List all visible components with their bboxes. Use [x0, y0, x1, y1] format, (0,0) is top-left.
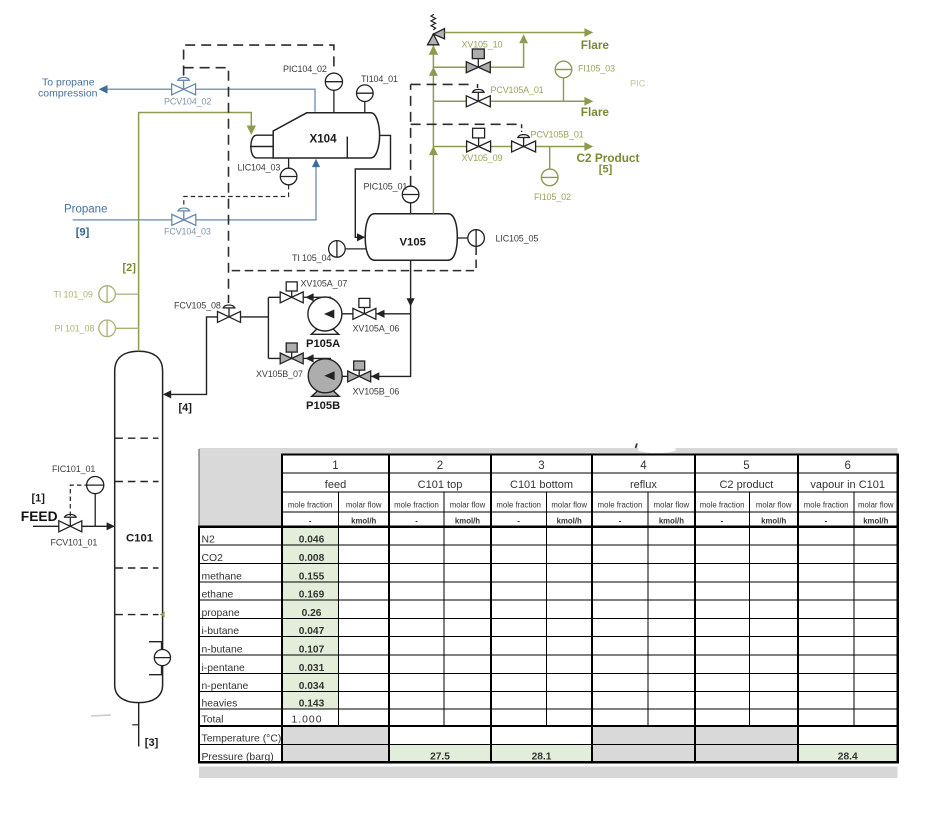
svg-text:XV105A_07: XV105A_07 [301, 279, 348, 289]
svg-text:-: - [619, 517, 622, 526]
arrow propane into X104 [312, 159, 320, 167]
C101 tray 2 [115, 481, 158, 483]
C101 bottom outlet line [3] [138, 703, 140, 747]
svg-text:TI104_01: TI104_01 [361, 74, 398, 84]
reboiler stub lower [149, 666, 162, 675]
svg-text:4: 4 [640, 460, 647, 472]
arrow into V105 [357, 233, 365, 241]
valve XV105B_07 [280, 343, 303, 364]
svg-text:-: - [825, 517, 828, 526]
pressure row cells [282, 745, 389, 763]
arrow on P105A discharge [305, 293, 313, 301]
svg-text:1: 1 [332, 460, 338, 472]
svg-text:molar flow: molar flow [858, 501, 894, 510]
svg-text:FI105_02: FI105_02 [534, 192, 571, 202]
svg-text:methane: methane [202, 572, 243, 583]
svg-text:mole fraction: mole fraction [394, 501, 439, 510]
wire XV105_10 branch [433, 44, 523, 68]
temperature row gray cells [282, 726, 389, 745]
arrow riser at XV105_10 branch [429, 67, 438, 76]
instrument FI105_03 [563, 78, 565, 102]
instrument TI 105_04 [345, 248, 366, 250]
units row [309, 517, 889, 526]
instrument LIC105_05 [457, 237, 468, 239]
svg-text:mole fraction: mole fraction [288, 501, 333, 510]
svg-text:n-pentane: n-pentane [202, 681, 249, 692]
svg-text:molar flow: molar flow [756, 501, 792, 510]
feed arrow into C101 [107, 522, 115, 530]
exchanger X104 body [273, 113, 379, 158]
svg-text:-: - [415, 517, 418, 526]
svg-text:[2]: [2] [123, 262, 137, 274]
arrow flare 2 [584, 97, 593, 106]
svg-text:kmol/h: kmol/h [863, 517, 888, 526]
svg-text:TI 105_04: TI 105_04 [292, 253, 331, 263]
svg-text:molar flow: molar flow [654, 501, 690, 510]
svg-text:V105: V105 [400, 236, 426, 248]
valve XV105_10 (gray) [466, 49, 490, 73]
arrow overhead into X104 [247, 126, 256, 135]
svg-text:-: - [721, 517, 724, 526]
X104 weir [346, 137, 348, 159]
column C101 [115, 351, 163, 702]
gray band above table [199, 448, 898, 454]
arrow riser at XV105_09 branch [429, 146, 438, 155]
svg-text:0.26: 0.26 [302, 608, 322, 619]
svg-text:PCV105B_01: PCV105B_01 [531, 130, 584, 140]
signal LIC105_05 to FCV105_08 [229, 247, 477, 271]
valve XV105_09 [467, 128, 491, 152]
signal wire FIC101_01 to FCV101_01 [70, 485, 86, 516]
svg-text:C101 top: C101 top [418, 479, 463, 491]
wire reflux to column [170, 317, 218, 395]
arrow to propane compression [99, 85, 108, 94]
valve FCV105_08 [218, 305, 241, 322]
svg-text:0.169: 0.169 [299, 590, 325, 601]
signal PIC104_02 to PCV104_02 [184, 45, 334, 75]
X104 channel partition [250, 146, 273, 148]
valve PCV105A_01 [466, 89, 490, 106]
wire blue propane vapour line [101, 89, 315, 111]
wire P105B discharge [268, 357, 331, 359]
svg-text:-: - [517, 517, 520, 526]
svg-text:mole fraction: mole fraction [804, 501, 849, 510]
svg-text:C101: C101 [126, 532, 153, 544]
svg-text:LIC104_03: LIC104_03 [238, 163, 281, 173]
svg-text:0.143: 0.143 [299, 698, 325, 709]
svg-text:-: - [309, 517, 312, 526]
svg-text:PCV104_02: PCV104_02 [164, 97, 211, 107]
instrument PIC105_01 [410, 203, 412, 214]
svg-text:0.046: 0.046 [299, 535, 325, 546]
svg-text:mole fraction: mole fraction [700, 501, 745, 510]
svg-text:molar flow: molar flow [551, 501, 587, 510]
pressure values [430, 751, 858, 762]
subheaders [288, 501, 894, 510]
thick horizontals [281, 454, 898, 456]
svg-text:XV105B_06: XV105B_06 [353, 387, 400, 397]
svg-text:FCV104_03: FCV104_03 [164, 227, 211, 237]
svg-text:Total: Total [202, 714, 224, 725]
svg-text:XV105_09: XV105_09 [462, 153, 503, 163]
arrow riser below PSV [429, 45, 438, 54]
svg-text:molar flow: molar flow [346, 501, 382, 510]
thin data rows [199, 544, 898, 546]
corner left thin border [198, 449, 200, 526]
wire feed line [33, 525, 111, 527]
thin subdividers [338, 492, 340, 726]
signal to PCV105A_01 [411, 83, 474, 85]
valve PCV104_02 (blue) [172, 77, 196, 94]
svg-text:kmol/h: kmol/h [351, 517, 376, 526]
svg-text:reflux: reflux [630, 479, 657, 491]
valve XV105B_06 [348, 361, 371, 382]
arrow down on V105 outlet [407, 298, 415, 306]
svg-text:XV105B_07: XV105B_07 [256, 369, 303, 379]
instrument TI104_01 [364, 102, 366, 113]
TABLE PART PLACEHOLDER [199, 444, 898, 779]
pump P105A [308, 297, 342, 334]
svg-text:[5]: [5] [599, 164, 613, 176]
svg-text:molar flow: molar flow [450, 501, 486, 510]
C101 tray 4 [115, 614, 158, 616]
gray corner block [199, 449, 282, 527]
svg-text:Pressure (barg): Pressure (barg) [202, 752, 274, 763]
svg-text:N2: N2 [202, 535, 216, 546]
olive vapour arrow at tray 4 [160, 611, 165, 617]
svg-text:Propane: Propane [64, 204, 107, 216]
svg-text:TI 101_09: TI 101_09 [54, 290, 93, 300]
row labels [202, 535, 282, 764]
svg-text:i-pentane: i-pentane [202, 663, 246, 674]
svg-text:kmol/h: kmol/h [659, 517, 684, 526]
C101 tray 1 [115, 437, 158, 439]
FIC101_01 tap line [94, 494, 96, 527]
svg-text:vapour in C101: vapour in C101 [810, 479, 885, 491]
wire C2 product line [433, 146, 589, 148]
faint artifact dash left of outlet [91, 715, 111, 716]
svg-text:PIC105_01: PIC105_01 [364, 182, 408, 192]
svg-text:feed: feed [325, 479, 346, 491]
wire olive flare riser [432, 45, 434, 214]
svg-text:XV105_10: XV105_10 [462, 40, 503, 50]
svg-text:kmol/h: kmol/h [557, 517, 582, 526]
valve FCV101_01 [59, 514, 82, 531]
instrument TI 101_09 [115, 293, 138, 295]
wire X104 outlet to V105 [355, 135, 390, 237]
svg-text:3: 3 [538, 460, 544, 472]
svg-text:0.031: 0.031 [299, 663, 325, 674]
wire P105A discharge [268, 296, 331, 298]
instrument FI105_02 [549, 147, 551, 170]
signal LIC104_03 to FCV104_03 [184, 185, 289, 208]
svg-text:XV105A_06: XV105A_06 [353, 324, 400, 334]
svg-text:PCV105A_01: PCV105A_01 [491, 85, 544, 95]
arrow into XV105A_06 [376, 310, 384, 318]
valve PCV105B_01 [512, 135, 536, 152]
X104 channel head [251, 135, 273, 158]
svg-text:propane: propane [202, 608, 240, 619]
svg-text:5: 5 [743, 460, 749, 472]
svg-text:n-butane: n-butane [202, 645, 243, 656]
svg-text:C2 product: C2 product [719, 479, 773, 491]
svg-text:[4]: [4] [179, 402, 193, 414]
svg-text:kmol/h: kmol/h [455, 517, 480, 526]
wire flare header 1 [445, 32, 590, 34]
white notch artifact [638, 446, 676, 453]
svg-text:28.1: 28.1 [532, 751, 552, 762]
node [4] arrow into column [163, 390, 171, 398]
wire flare line 2 [433, 100, 589, 102]
instrument PIC104_02 [333, 90, 335, 113]
svg-text:6: 6 [844, 460, 850, 472]
svg-text:FI105_03: FI105_03 [578, 64, 615, 74]
svg-text:FIC101_01: FIC101_01 [52, 464, 95, 474]
PSV relief valve [428, 14, 445, 45]
bottom outlet tick [132, 724, 138, 726]
wire blue propane liquid line [73, 161, 316, 220]
svg-text:X104: X104 [310, 133, 338, 146]
svg-text:compression: compression [38, 88, 98, 100]
instrument FIC101_01 [87, 477, 104, 494]
wire P105B suction [342, 375, 348, 377]
reboiler stub upper [149, 642, 162, 650]
arrow flare 1 [584, 28, 593, 37]
gray strip below table [199, 767, 898, 779]
dark tick artifact [636, 444, 638, 449]
svg-text:ethane: ethane [202, 590, 234, 601]
vessel V105 [365, 214, 457, 260]
reboiler instrument circle [154, 650, 170, 666]
svg-text:Temperature (°C): Temperature (°C) [202, 733, 282, 744]
svg-text:FCV105_08: FCV105_08 [174, 301, 221, 311]
thick verticals [281, 454, 283, 764]
pump P105B [308, 359, 342, 397]
svg-text:i-butane: i-butane [202, 626, 240, 637]
svg-text:FEED: FEED [21, 509, 58, 524]
DIAGRAM PART PLACEHOLDER [21, 64, 539, 749]
svg-text:FCV101_01: FCV101_01 [51, 538, 98, 548]
wire pump header vertical [267, 297, 269, 358]
svg-text:0.107: 0.107 [299, 645, 325, 656]
svg-text:1.000: 1.000 [291, 714, 322, 725]
thin header rows [282, 472, 898, 474]
wire V105 outlet to pumps [371, 260, 411, 376]
svg-text:0.034: 0.034 [299, 681, 325, 692]
svg-text:kmol/h: kmol/h [761, 517, 786, 526]
svg-text:Flare: Flare [581, 38, 610, 52]
instrument PI 101_08 [115, 327, 138, 329]
svg-text::: : [646, 79, 648, 88]
svg-text:P105B: P105B [306, 400, 340, 412]
C101 tray 3 [115, 567, 158, 569]
valve FCV104_03 (blue) [172, 208, 196, 225]
arrow XV105_10 riser [519, 34, 528, 43]
svg-text:PI 101_08: PI 101_08 [55, 324, 95, 334]
valve XV105A_07 [280, 282, 303, 303]
svg-text:LIC105_05: LIC105_05 [496, 234, 539, 244]
wire P105A suction [342, 313, 353, 315]
wire V105 to XV105A_06 [376, 313, 411, 315]
feed values [299, 535, 325, 710]
svg-text:2: 2 [437, 460, 443, 472]
svg-text:[1]: [1] [32, 493, 46, 505]
instrument LIC104_03 [288, 158, 290, 168]
svg-text:C101 bottom: C101 bottom [510, 479, 573, 491]
svg-text:mole fraction: mole fraction [598, 501, 643, 510]
svg-text:mole fraction: mole fraction [496, 501, 541, 510]
svg-text:[3]: [3] [145, 737, 159, 749]
signal branch to FCV105_08 riser [184, 68, 229, 303]
svg-text:PIC104_02: PIC104_02 [283, 64, 327, 74]
svg-text:CO2: CO2 [202, 553, 224, 564]
svg-text:heavies: heavies [202, 698, 238, 709]
signal PIC105_01 riser [410, 84, 412, 185]
wire FCV105_08 to pump header [241, 316, 269, 318]
valve XV105A_06 [353, 298, 376, 319]
svg-text:P105A: P105A [306, 338, 340, 350]
svg-text:0.155: 0.155 [299, 572, 325, 583]
svg-text:28.4: 28.4 [838, 751, 858, 762]
arrow into XV105B_06 [371, 372, 379, 380]
svg-text:[9]: [9] [76, 226, 90, 238]
table grid [199, 449, 898, 764]
svg-text:PIC: PIC [630, 79, 646, 89]
svg-text:27.5: 27.5 [430, 751, 450, 762]
svg-text:0.008: 0.008 [299, 553, 325, 564]
green mole fraction column [282, 527, 339, 709]
arrow C2 product [584, 142, 593, 151]
wire olive column overhead line [2] [139, 113, 252, 352]
svg-text:Flare: Flare [581, 105, 610, 119]
svg-text:0.047: 0.047 [299, 626, 325, 637]
signal to PCV105B_01 [411, 123, 518, 125]
arrow on P105B discharge [305, 354, 313, 362]
